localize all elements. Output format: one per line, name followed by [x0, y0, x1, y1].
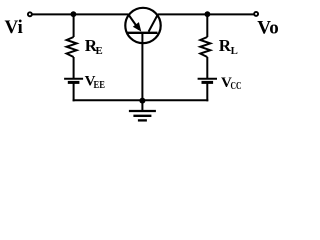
svg-text:Vo: Vo	[257, 17, 278, 38]
svg-text:Vi: Vi	[5, 17, 23, 38]
